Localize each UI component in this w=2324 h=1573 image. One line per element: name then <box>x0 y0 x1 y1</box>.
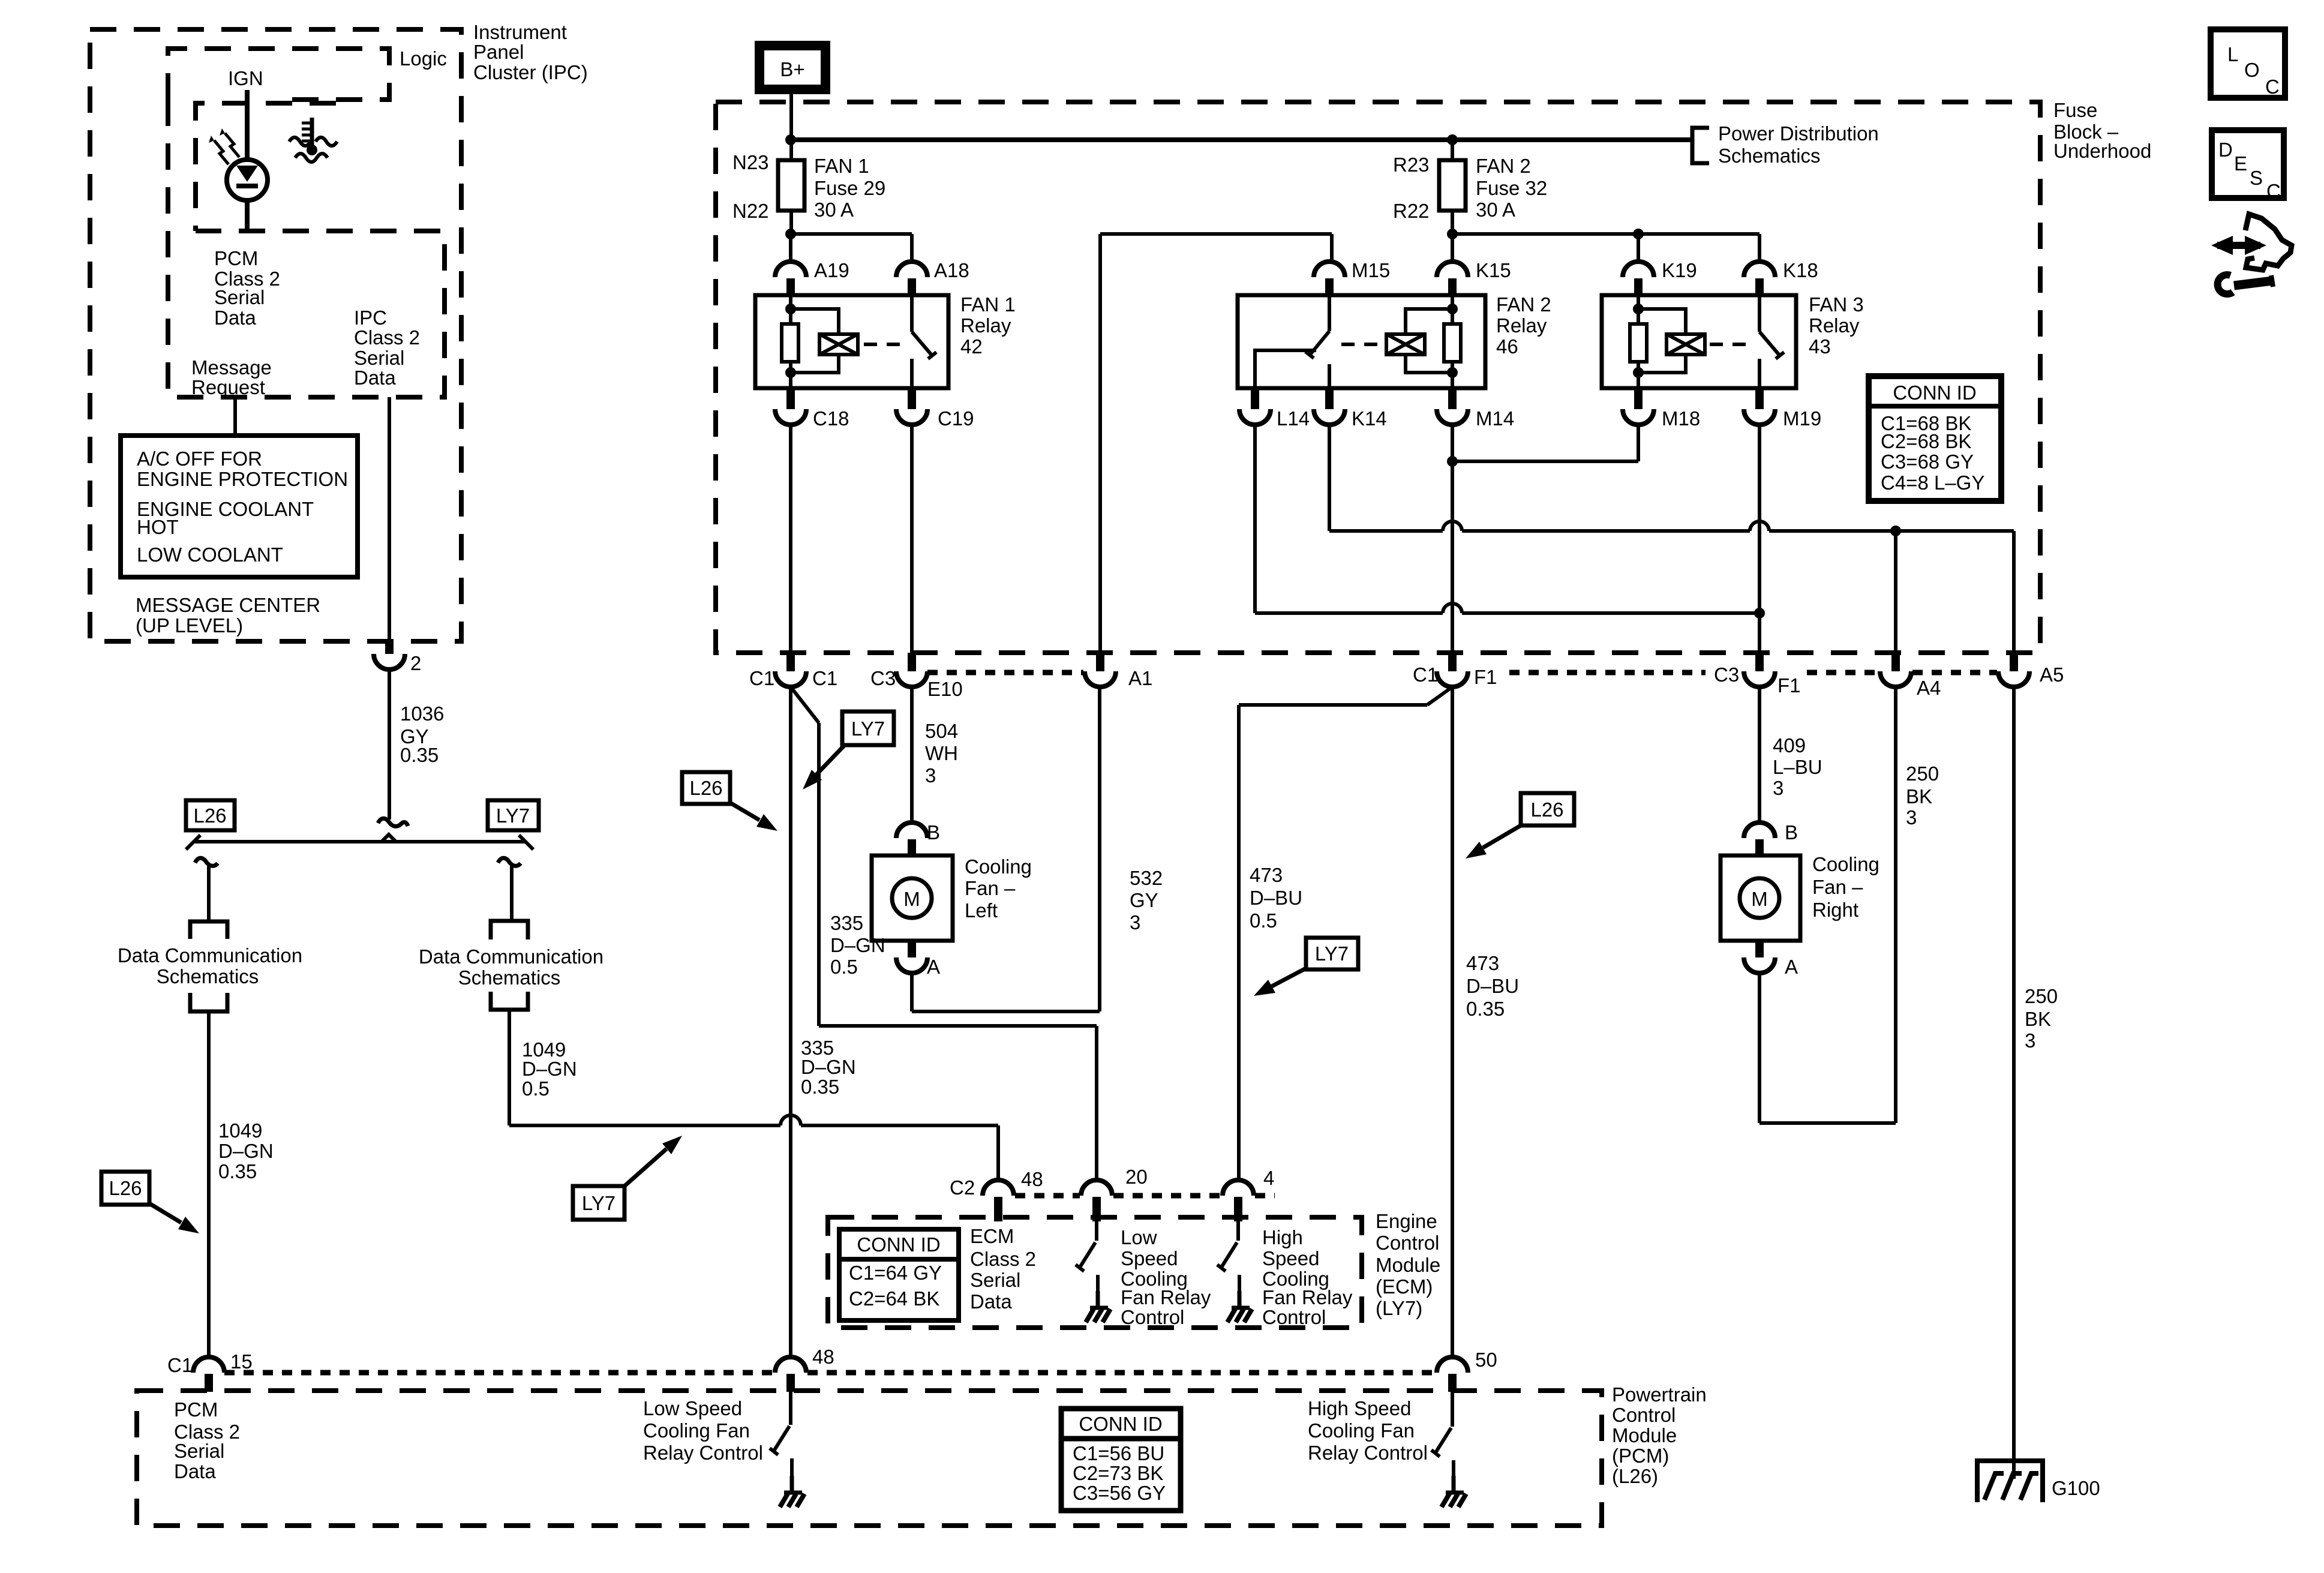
PCM CONN ID table <box>1061 1409 1181 1511</box>
svg-text:E10: E10 <box>927 678 963 700</box>
svg-text:Relay: Relay <box>1496 314 1547 337</box>
svg-text:L26: L26 <box>1530 798 1563 821</box>
svg-text:C: C <box>2265 76 2280 98</box>
wire K19 drop <box>1637 234 1640 262</box>
connector 50 PCM <box>1437 1357 1468 1373</box>
svg-text:0.5: 0.5 <box>522 1077 550 1100</box>
connector A5 <box>2010 653 2018 671</box>
label LY7 box right with arrow <box>1306 938 1358 969</box>
svg-text:L26: L26 <box>193 804 226 827</box>
svg-text:Fuse 32: Fuse 32 <box>1476 177 1547 199</box>
off-page reference left bottom <box>190 993 227 1011</box>
svg-text:Serial: Serial <box>970 1269 1020 1291</box>
svg-text:Serial: Serial <box>354 347 404 369</box>
svg-text:K14: K14 <box>1352 407 1387 430</box>
FAN3 coil-switch link <box>1710 343 1749 346</box>
connector M15 <box>1314 262 1345 277</box>
svg-text:Module: Module <box>1612 1424 1677 1446</box>
FAN1 resistor bottom wire <box>789 362 792 388</box>
connector C1 15 PCM <box>193 1357 224 1373</box>
connector C19 <box>908 388 916 409</box>
svg-text:C1: C1 <box>812 667 837 689</box>
svg-text:Data: Data <box>354 367 396 389</box>
svg-text:Data Communication: Data Communication <box>118 944 302 966</box>
junction K19 branch <box>1633 229 1644 239</box>
svg-text:Right: Right <box>1812 899 1858 921</box>
service reference icon <box>2217 242 2260 249</box>
svg-text:M: M <box>903 888 920 910</box>
svg-text:2: 2 <box>410 652 421 674</box>
ground high speed PCM <box>1452 1476 1456 1491</box>
wire B+ to bus <box>789 91 793 160</box>
connector 48 PCM <box>775 1357 806 1373</box>
svg-text:FAN 1: FAN 1 <box>814 155 869 177</box>
svg-text:A: A <box>1785 956 1798 978</box>
bus wire <box>791 137 1692 142</box>
svg-text:C19: C19 <box>938 407 974 430</box>
cooling fan right motor <box>1721 855 1800 941</box>
svg-text:Fuse 29: Fuse 29 <box>814 177 885 199</box>
ECM connector fine dashes <box>1015 1193 1080 1199</box>
connector C1 C1 <box>786 653 795 671</box>
svg-text:Data: Data <box>174 1460 216 1482</box>
resistor FAN2 <box>1444 324 1461 362</box>
svg-text:O: O <box>2244 59 2260 81</box>
svg-text:Fan Relay: Fan Relay <box>1121 1286 1211 1308</box>
indicator lamp box <box>196 103 336 231</box>
wire 1036 GY <box>388 670 391 819</box>
svg-text:Module: Module <box>1376 1254 1440 1276</box>
svg-text:0.5: 0.5 <box>830 956 858 978</box>
connector A19 <box>775 262 806 277</box>
svg-text:20: 20 <box>1125 1166 1148 1188</box>
svg-text:L26: L26 <box>109 1177 142 1199</box>
svg-text:LOW COOLANT: LOW COOLANT <box>137 544 283 566</box>
svg-text:0.35: 0.35 <box>218 1160 257 1182</box>
svg-text:Low Speed: Low Speed <box>643 1397 742 1419</box>
junction A4 takeoff <box>1890 526 1901 536</box>
svg-text:(L26): (L26) <box>1612 1465 1658 1487</box>
wire C19 down <box>910 425 914 653</box>
indicator light arrows <box>214 140 229 164</box>
FAN2 coil feed wire <box>1451 295 1454 324</box>
svg-text:A4: A4 <box>1917 677 1941 699</box>
svg-text:Relay Control: Relay Control <box>1308 1442 1428 1464</box>
svg-text:CONN ID: CONN ID <box>857 1233 940 1256</box>
svg-text:B: B <box>927 821 940 843</box>
svg-text:High: High <box>1262 1226 1303 1248</box>
svg-text:PCM: PCM <box>214 247 258 269</box>
svg-text:Control: Control <box>1376 1232 1439 1254</box>
wire 250 BK 3 A4 <box>1894 687 1897 1123</box>
svg-text:15: 15 <box>230 1350 253 1373</box>
coolant temperature symbol <box>310 118 314 149</box>
off-page reference left top <box>190 921 227 939</box>
svg-text:C1: C1 <box>1413 664 1438 686</box>
svg-text:Control: Control <box>1612 1404 1676 1426</box>
svg-text:B+: B+ <box>780 58 804 80</box>
switch FAN1 <box>910 295 914 332</box>
relay FAN 1 box <box>755 295 948 388</box>
PCM module box <box>137 1391 1602 1526</box>
relay coil FAN3 <box>1667 334 1705 355</box>
svg-text:A1: A1 <box>1128 667 1152 689</box>
FAN3 resistor bottom wire <box>1637 362 1640 388</box>
resistor FAN1 <box>782 324 798 362</box>
svg-text:Fan Relay: Fan Relay <box>1262 1286 1353 1308</box>
ECM CONN ID table <box>839 1229 959 1320</box>
connector 20 ECM <box>1081 1180 1112 1196</box>
svg-text:Cooling Fan: Cooling Fan <box>643 1419 750 1442</box>
label LY7 box <box>488 800 539 830</box>
svg-text:3: 3 <box>2025 1029 2035 1052</box>
off-page reference right top <box>491 921 528 939</box>
connector A cooling fan left <box>908 941 916 957</box>
connector M19 <box>1755 388 1764 409</box>
connector M14 <box>1448 388 1457 409</box>
svg-text:L26: L26 <box>689 777 722 799</box>
svg-text:C3=56 GY: C3=56 GY <box>1073 1482 1166 1504</box>
junction FAN3 coil bottom <box>1633 367 1644 378</box>
connector M18 <box>1634 388 1643 409</box>
svg-text:3: 3 <box>1130 911 1140 933</box>
svg-text:Logic: Logic <box>400 47 447 70</box>
connector B cooling fan right <box>1744 822 1775 838</box>
wire 473 D-BU 0.35 to PCM <box>1451 687 1454 1357</box>
wire M14 to M18 link <box>1452 460 1638 463</box>
svg-text:C18: C18 <box>813 407 849 430</box>
svg-text:L–BU: L–BU <box>1773 756 1822 778</box>
wire to data communication left <box>195 858 218 866</box>
svg-text:D–GN: D–GN <box>830 934 885 956</box>
wire 504 WH 3 <box>910 687 914 822</box>
svg-text:N23: N23 <box>732 151 769 173</box>
svg-text:ECM: ECM <box>970 1225 1014 1247</box>
svg-text:Relay Control: Relay Control <box>643 1442 763 1464</box>
svg-text:50: 50 <box>1475 1349 1497 1371</box>
relay coil FAN2 <box>1386 334 1425 355</box>
wire fan left A to A1 <box>910 973 914 1011</box>
svg-text:Class 2: Class 2 <box>354 326 420 349</box>
PCM connector fine dashes <box>224 1370 774 1376</box>
net splice bar <box>193 840 526 843</box>
label L26 box right with arrow <box>1521 793 1574 825</box>
svg-text:L14: L14 <box>1277 407 1310 430</box>
svg-text:BK: BK <box>1906 785 1932 807</box>
svg-text:Cooling: Cooling <box>1812 853 1879 875</box>
svg-text:WH: WH <box>925 742 958 764</box>
svg-text:LY7: LY7 <box>582 1192 615 1214</box>
connector K14 <box>1325 388 1334 409</box>
connector L14 <box>1251 388 1259 409</box>
svg-text:M: M <box>1751 888 1768 910</box>
DESC icon <box>2212 130 2284 198</box>
svg-text:409: 409 <box>1773 734 1806 757</box>
wire M14 down <box>1451 425 1454 653</box>
fuse block CONN ID table <box>1869 376 2001 501</box>
svg-text:L: L <box>2227 43 2238 65</box>
svg-text:Low: Low <box>1121 1226 1157 1248</box>
svg-text:Schematics: Schematics <box>458 966 561 989</box>
svg-text:C: C <box>2266 180 2281 202</box>
svg-text:GY: GY <box>1130 889 1158 911</box>
FAN1 coil feed wire <box>789 295 792 324</box>
ground low speed PCM <box>790 1476 794 1491</box>
svg-text:Serial: Serial <box>174 1440 224 1462</box>
svg-text:0.35: 0.35 <box>1466 998 1505 1020</box>
cooling fan left motor <box>872 855 953 941</box>
svg-text:C1=56 BU: C1=56 BU <box>1073 1442 1164 1464</box>
FAN1 coil branch wires <box>791 309 839 334</box>
wire message request <box>233 397 237 436</box>
svg-text:Underhood: Underhood <box>2053 140 2151 162</box>
relay FAN 3 box <box>1602 295 1796 388</box>
svg-text:G100: G100 <box>2052 1477 2100 1499</box>
svg-text:C3: C3 <box>870 667 896 689</box>
label LY7 box with arrow <box>573 1186 624 1220</box>
svg-text:48: 48 <box>812 1346 834 1368</box>
connector K19 <box>1623 262 1654 277</box>
svg-text:Data Communication: Data Communication <box>419 945 603 968</box>
svg-text:Data: Data <box>214 307 256 329</box>
svg-text:M18: M18 <box>1662 407 1700 430</box>
svg-text:BK: BK <box>2025 1008 2051 1030</box>
junction B+ bus <box>785 134 796 145</box>
wire L14 to M19 <box>1253 425 1257 613</box>
fuse F32 <box>1451 140 1454 160</box>
svg-text:D–GN: D–GN <box>522 1058 577 1080</box>
wire 1049 D-GN 0.35 <box>207 1011 211 1357</box>
svg-text:Message: Message <box>191 356 272 379</box>
svg-text:K19: K19 <box>1662 259 1697 281</box>
switch high speed fan relay control PCM <box>1451 1392 1454 1427</box>
svg-text:E: E <box>2234 152 2247 175</box>
junction FAN1 coil bottom <box>785 367 796 378</box>
svg-text:A19: A19 <box>814 259 849 281</box>
svg-text:R23: R23 <box>1393 154 1430 176</box>
svg-text:473: 473 <box>1466 952 1499 974</box>
svg-text:A: A <box>927 956 940 978</box>
FAN3 coil feed wire <box>1637 295 1640 324</box>
svg-text:532: 532 <box>1130 867 1163 889</box>
relay FAN 2 box <box>1238 295 1485 388</box>
switch low speed fan relay control PCM <box>789 1392 792 1425</box>
switch high speed fan relay control ECM <box>1236 1221 1240 1241</box>
svg-text:C2=64 BK: C2=64 BK <box>849 1287 939 1310</box>
svg-text:D: D <box>2218 139 2233 161</box>
junction L14-M19 <box>1754 608 1765 619</box>
svg-text:0.5: 0.5 <box>1250 909 1277 932</box>
junction fuse29 output <box>785 229 796 239</box>
svg-text:HOT: HOT <box>137 516 179 538</box>
svg-text:504: 504 <box>925 720 958 742</box>
svg-text:30 A: 30 A <box>814 199 854 221</box>
svg-text:Instrument: Instrument <box>473 21 567 43</box>
off-page reference right bottom <box>491 992 528 1010</box>
svg-text:N22: N22 <box>732 200 769 222</box>
svg-text:LY7: LY7 <box>496 804 530 827</box>
svg-text:42: 42 <box>960 335 983 358</box>
FAN2 coil-switch link <box>1341 343 1381 346</box>
svg-text:(PCM): (PCM) <box>1612 1445 1669 1467</box>
svg-text:Cooling Fan: Cooling Fan <box>1308 1419 1415 1442</box>
wire 1049 D-GN 0.5 <box>508 1010 511 1125</box>
svg-text:Panel: Panel <box>473 41 524 63</box>
connector C3 F1 <box>1755 653 1764 671</box>
svg-text:Serial: Serial <box>214 286 265 308</box>
wire fuse29 to A19 <box>789 234 792 262</box>
svg-text:335: 335 <box>830 912 863 934</box>
connector A cooling fan right <box>1755 941 1764 957</box>
svg-text:LY7: LY7 <box>851 718 885 740</box>
svg-text:FAN 2: FAN 2 <box>1476 155 1531 177</box>
resistor FAN3 <box>1630 324 1647 362</box>
svg-text:46: 46 <box>1496 335 1518 358</box>
svg-text:C3=68 GY: C3=68 GY <box>1881 451 1974 473</box>
junction M14-M18 <box>1447 456 1458 467</box>
svg-text:M19: M19 <box>1783 407 1821 430</box>
FAN3 coil branch wires <box>1638 309 1686 334</box>
svg-text:1036: 1036 <box>400 703 444 725</box>
svg-text:Fan –: Fan – <box>1812 876 1863 898</box>
FAN1 coil-switch link <box>864 343 903 346</box>
wire A1 to M15 <box>1100 232 1332 236</box>
ECM module box <box>828 1217 1362 1328</box>
ground high speed ECM <box>1238 1291 1242 1307</box>
svg-text:CONN ID: CONN ID <box>1893 382 1976 404</box>
svg-text:Cluster (IPC): Cluster (IPC) <box>473 61 588 83</box>
switch low speed fan relay control ECM <box>1095 1221 1098 1241</box>
B+ battery feed <box>759 46 825 89</box>
connector K15 <box>1437 262 1468 277</box>
wire A4 drop <box>1894 531 1897 653</box>
wire IGN to indicator lamp <box>245 90 250 160</box>
label L26 box mid-left with arrow <box>682 772 730 804</box>
wire 473 D-BU 0.5 to ECM <box>1427 687 1452 705</box>
wire branch to A18 <box>791 232 912 236</box>
svg-text:LY7: LY7 <box>1315 942 1349 965</box>
wire K14 to ground bus <box>1328 425 1331 531</box>
LOC icon <box>2211 29 2285 98</box>
connector K18 <box>1744 262 1775 277</box>
junction FAN2 coil bottom <box>1447 367 1458 378</box>
svg-text:C4=8 L–GY: C4=8 L–GY <box>1881 472 1984 494</box>
connector 4 ECM <box>1223 1180 1254 1196</box>
svg-text:IGN: IGN <box>228 67 263 89</box>
svg-text:Class 2: Class 2 <box>970 1248 1036 1270</box>
svg-text:High Speed: High Speed <box>1308 1397 1411 1419</box>
svg-text:M15: M15 <box>1352 259 1390 281</box>
svg-text:IPC: IPC <box>354 307 387 329</box>
wire fan right A to A4 <box>1758 973 1761 1123</box>
switch FAN2 <box>1328 295 1331 331</box>
svg-text:F1: F1 <box>1474 666 1497 688</box>
wire M19 down <box>1758 425 1761 653</box>
svg-text:48: 48 <box>1021 1168 1043 1190</box>
svg-text:Control: Control <box>1262 1306 1326 1328</box>
svg-text:Data: Data <box>970 1290 1012 1313</box>
wire C18 down <box>789 425 792 653</box>
svg-text:Left: Left <box>965 899 998 921</box>
label LY7 box mid with arrow <box>842 712 894 745</box>
svg-text:M14: M14 <box>1476 407 1514 430</box>
svg-text:C2=73 BK: C2=73 BK <box>1073 1462 1163 1484</box>
svg-text:CONN ID: CONN ID <box>1079 1413 1162 1435</box>
svg-text:(ECM): (ECM) <box>1376 1275 1433 1298</box>
svg-text:3: 3 <box>1773 777 1783 799</box>
svg-text:C1=64 GY: C1=64 GY <box>849 1262 942 1284</box>
svg-text:Power Distribution: Power Distribution <box>1718 122 1879 145</box>
svg-text:Control: Control <box>1121 1306 1184 1328</box>
message center display box <box>121 436 358 577</box>
svg-text:A/C OFF FOR: A/C OFF FOR <box>137 448 262 470</box>
svg-text:FAN 2: FAN 2 <box>1496 293 1551 316</box>
svg-text:43: 43 <box>1809 335 1831 358</box>
wire branch to K19 K18 <box>1452 232 1759 236</box>
junction FAN2 coil top <box>1447 304 1458 314</box>
ground G100 <box>1977 1461 2043 1502</box>
IPC module box (Instrument Panel Cluster) <box>90 29 461 641</box>
wire IPC class 2 serial data <box>388 397 391 641</box>
svg-text:Schematics: Schematics <box>1718 145 1821 167</box>
svg-text:250: 250 <box>2025 985 2058 1007</box>
svg-text:C3: C3 <box>1714 664 1739 686</box>
svg-text:Relay: Relay <box>1809 314 1860 337</box>
connector A1 <box>1096 653 1104 671</box>
svg-text:MESSAGE CENTER: MESSAGE CENTER <box>136 594 320 616</box>
junction FAN3 coil top <box>1633 304 1644 314</box>
switch FAN3 <box>1758 295 1761 332</box>
svg-text:D–GN: D–GN <box>801 1056 856 1078</box>
svg-text:A18: A18 <box>934 259 969 281</box>
svg-text:Speed: Speed <box>1121 1247 1178 1269</box>
connector pin 2 <box>385 641 394 654</box>
logic box <box>168 49 389 100</box>
FAN2 coil branch wires <box>1406 309 1452 334</box>
svg-text:Engine: Engine <box>1376 1210 1437 1232</box>
svg-text:Relay: Relay <box>960 314 1011 337</box>
svg-text:4: 4 <box>1263 1167 1274 1189</box>
svg-text:A5: A5 <box>2040 664 2064 686</box>
IPC lower box (serial data) <box>168 100 445 397</box>
svg-text:F1: F1 <box>1777 674 1801 697</box>
wire A1 vertical <box>1098 234 1102 653</box>
label L26 box <box>186 800 235 830</box>
svg-text:3: 3 <box>1906 806 1917 828</box>
svg-text:PCM: PCM <box>174 1398 218 1421</box>
svg-text:30 A: 30 A <box>1476 199 1515 221</box>
svg-text:D–BU: D–BU <box>1250 887 1302 909</box>
svg-text:K18: K18 <box>1783 259 1818 281</box>
svg-text:K15: K15 <box>1476 259 1511 281</box>
FAN2 resistor bottom wire <box>1451 362 1454 388</box>
label L26 box with arrow <box>101 1172 149 1205</box>
svg-text:D–GN: D–GN <box>218 1140 274 1162</box>
svg-text:R22: R22 <box>1393 200 1430 222</box>
svg-text:S: S <box>2250 167 2263 189</box>
svg-text:1049: 1049 <box>218 1119 262 1142</box>
relay coil FAN1 <box>819 334 858 355</box>
fuse F29 <box>778 160 804 211</box>
junction fuse32 output <box>1447 229 1458 239</box>
svg-text:Cooling: Cooling <box>965 855 1032 878</box>
junction FAN1 coil top <box>785 304 796 314</box>
wire fuse32 to K15 <box>1451 234 1454 262</box>
connector C2 48 ECM <box>983 1180 1014 1196</box>
svg-text:C2=68 BK: C2=68 BK <box>1881 430 1971 452</box>
svg-text:C1: C1 <box>167 1354 193 1376</box>
svg-text:Fuse: Fuse <box>2053 99 2097 121</box>
